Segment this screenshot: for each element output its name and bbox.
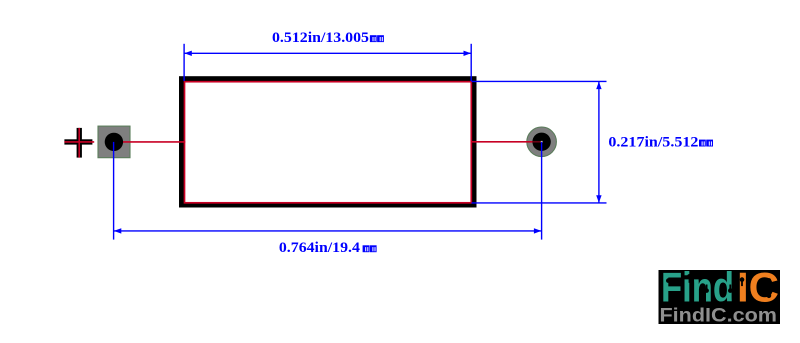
- dimension bottom: left arrowhead: [114, 228, 122, 233]
- wire red: pad 1 to body left edge: [114, 141, 185, 143]
- wire red: body right edge to pad 2: [471, 141, 541, 143]
- body outline (red fab rectangle): [185, 82, 472, 203]
- dimension top: right arrowhead: [464, 51, 472, 56]
- dimension right: extension line bottom: [472, 202, 607, 204]
- dimension top: left arrowhead: [184, 51, 192, 56]
- right pad 2 (gray round with green outline): [527, 127, 557, 157]
- dimension bottom: extension line right (from pad 2 center): [541, 142, 543, 240]
- logo via dots: [666, 274, 771, 298]
- dimension right: top arrowhead: [596, 82, 601, 90]
- dimension bottom: extension line left (from pad 1 center): [113, 142, 115, 240]
- dimension bottom: dimension line: [114, 230, 542, 232]
- left pad 1 (gray square with green outline): [98, 126, 130, 158]
- body outline (black silkscreen rectangle): [182, 79, 474, 205]
- dimension top: label mm blocks: [370, 35, 384, 42]
- wire red dim segment over pad 2 hole: [532, 141, 541, 143]
- svg-text:Find: Find: [661, 263, 734, 310]
- logo black box: [659, 270, 781, 324]
- origin marker plus (black cross): [64, 128, 92, 158]
- dimension right: label mm blocks: [699, 140, 713, 147]
- dimension bottom: right arrowhead: [534, 228, 542, 233]
- dimension top: extension line left: [183, 44, 185, 81]
- dimension top: dimension line: [184, 52, 471, 54]
- dimension right: dimension line: [598, 81, 600, 202]
- dimension bottom: label mm blocks: [363, 245, 377, 252]
- right pad 2 hole (black circle): [532, 133, 550, 151]
- svg-text:IC: IC: [737, 263, 779, 310]
- dimension right: bottom arrowhead: [596, 195, 601, 203]
- svg-text:FindIC.com: FindIC.com: [660, 305, 778, 326]
- dimension top: extension line right: [470, 44, 472, 81]
- dimension right: extension line top: [472, 80, 607, 82]
- origin marker crosshair (red): [64, 128, 94, 158]
- left pad 1 hole (black circle): [105, 133, 123, 151]
- right pad 2 center dot: [541, 141, 543, 143]
